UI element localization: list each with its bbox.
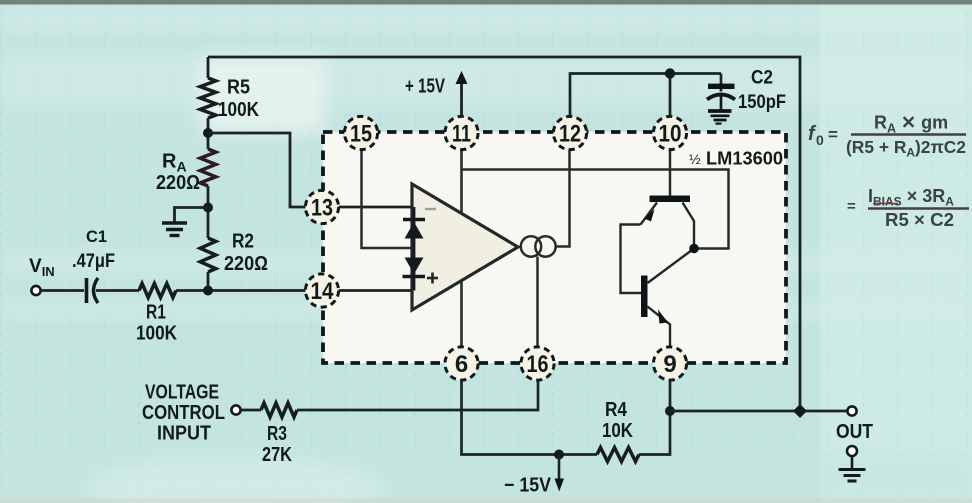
svg-text:INPUT: INPUT [157,423,211,445]
resistor R1 [139,284,176,298]
wire R2 to input line [207,272,210,291]
resistor R5 [200,78,216,118]
wire node to pin 13 [208,133,306,207]
output jack ground terminal [847,446,857,456]
transistor Q2 collector [648,249,695,284]
svg-text:C2: C2 [751,68,773,89]
pin 9 [653,347,686,380]
svg-text:13: 13 [311,195,333,222]
svg-text:LM13600: LM13600 [706,149,783,169]
svg-text:27K: 27K [262,444,292,466]
wire pin16 riser [536,257,539,348]
resistor R2 [200,238,216,272]
OTA output double circle [521,236,541,256]
svg-text:VOLTAGE: VOLTAGE [145,382,219,404]
ground below C2 [708,111,732,124]
formula Ibias equation [847,186,969,230]
wire R4 up to output line [639,411,670,455]
node -15V junction [554,450,564,460]
node R2/input junction [203,286,213,296]
wire VIN to C1 [41,289,84,292]
op-amp U1 internal V rail pin11 to pin6 [460,150,463,347]
svg-text:C1: C1 [86,227,107,246]
IC dashed border [323,132,786,363]
pin 11 [445,116,478,149]
op-amp U1 triangle [412,184,518,310]
wire pin6 to -15V rail [462,380,598,455]
svg-text:.47μF: .47μF [72,251,115,272]
transistor Q1 emitter with arrow [641,203,658,225]
svg-text:100K: 100K [218,99,259,121]
resistor RA [200,149,216,186]
svg-text:RA ✕ gm: RA ✕ gm [874,113,948,136]
svg-text:R2: R2 [232,231,254,253]
svg-text:10: 10 [659,121,682,148]
svg-text:16: 16 [527,351,549,378]
capacitor C1 [85,278,89,303]
svg-text:10K: 10K [602,420,633,442]
wire pin10 riser up [669,74,672,118]
wire top feedback from R5 top to right rail [208,57,800,411]
svg-text:9: 9 [663,351,676,378]
wire RA to node [207,186,210,238]
node R5/RA junction [203,128,213,138]
wire R1 to pin 14 [176,289,306,292]
diode D1 [403,218,425,221]
node RA/R2/ground junction [203,203,213,213]
svg-text:R3: R3 [267,423,287,445]
resistor R4 [597,448,639,462]
resistor R3 [261,403,297,417]
pin 6 [445,347,478,380]
node Q1/Q2 collector junction [689,244,699,254]
transistor Q1 base bar [650,196,691,203]
svg-text:=: = [828,125,838,144]
pin 14 [305,274,338,307]
node C2 junction [665,68,675,78]
svg-text:− 15V: − 15V [504,475,552,497]
node right rail junction [793,404,807,418]
svg-text:R5 × C2: R5 × C2 [885,210,954,230]
svg-text:11: 11 [452,121,471,148]
plus input label [427,273,438,284]
pin 16 [521,347,554,380]
wire output line [670,410,847,413]
transistor Q2 base bar [641,276,648,318]
pin 10 [653,116,686,149]
svg-text:12: 12 [559,121,581,148]
transistor Q2 emitter with arrow [648,307,671,348]
diode chain vertical [413,207,416,291]
wire pin9 down [669,380,672,411]
svg-text:OUT: OUT [836,421,873,443]
svg-text:CONTROL: CONTROL [142,402,225,424]
svg-text:+ 15V: + 15V [405,76,445,98]
svg-text:(R5 + RA)2πC2: (R5 + RA)2πC2 [846,137,966,160]
svg-text:6: 6 [455,351,468,378]
formula f0 equation [808,113,966,160]
svg-text:150pF: 150pF [738,92,786,113]
wire C1 to R1 [96,289,139,292]
ground symbol left [162,223,187,236]
svg-text:=: = [847,198,856,215]
wire terminal to R3 [241,409,261,412]
pin 13 [305,190,338,223]
svg-text:R5: R5 [227,77,250,99]
-15V supply arrow [558,455,561,481]
terminal VIN [31,286,40,295]
svg-text:220Ω: 220Ω [156,172,200,194]
svg-text:220Ω: 220Ω [224,253,268,275]
wire R5 to node [207,118,210,149]
minus input label [425,208,436,210]
IC dashed box interior [323,132,786,363]
terminal OUT [847,406,856,415]
svg-text:14: 14 [311,278,335,305]
wire pin10 riser to Q1 base [669,150,672,196]
wire pin13 to diodes [338,206,412,209]
pin 15 [344,116,377,149]
ground below OUT [839,470,866,482]
wire R5 stub top [207,57,210,78]
svg-text:½: ½ [689,151,701,167]
svg-text:100K: 100K [136,323,177,345]
wire pin12 riser up [570,74,721,118]
wire V+ rail to buffer [462,170,729,249]
terminal voltage control input [231,405,240,414]
wire to ground [175,208,209,222]
svg-text:0: 0 [816,132,824,148]
diode D2 [405,258,424,275]
wire OTA out to pin 12 [556,150,570,247]
svg-text:15: 15 [350,121,372,148]
wire R3 to pin16 [297,380,538,410]
pin 12 [553,116,586,149]
svg-text:R4: R4 [605,399,628,421]
node pin9/R4 junction [665,406,675,416]
transistor Q1 collector [683,203,695,246]
wire Q1 emitter to Q2 base [621,225,642,294]
capacitor C2 [720,74,723,92]
wire pin15 riser to diode midpoint [362,150,413,248]
+15V supply arrow [460,81,463,117]
svg-text:R1: R1 [146,302,166,324]
wire pin14 to op-amp [338,289,412,292]
